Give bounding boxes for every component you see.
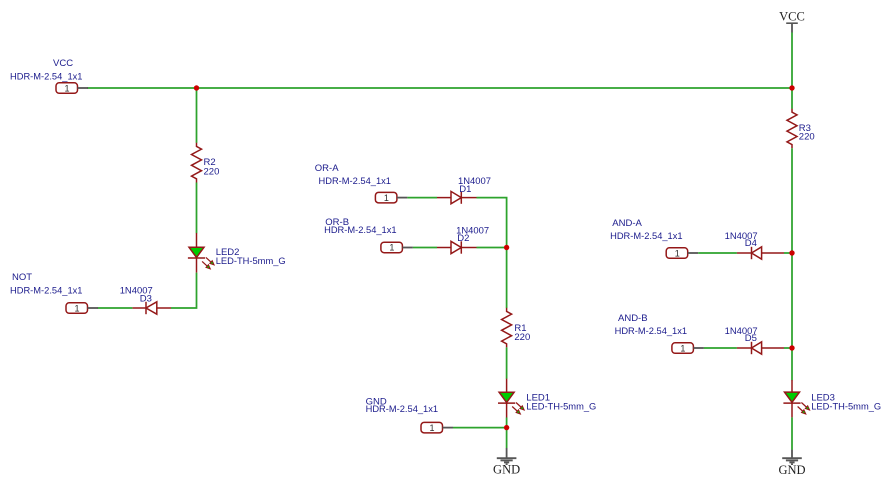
svg-text:D1: D1: [459, 184, 471, 195]
diode D4 1N4007: [737, 247, 784, 259]
svg-text:D5: D5: [745, 333, 757, 344]
junction node VCC-right: [789, 85, 794, 90]
header NOT HDR-M-2.54_1x1: [66, 303, 98, 314]
pin 1 stub: [402, 247, 413, 249]
pin 1 stub: [78, 87, 89, 89]
diode D1 1N4007: [437, 191, 477, 203]
svg-text:GND: GND: [493, 463, 520, 477]
svg-text:1: 1: [675, 248, 680, 258]
svg-text:220: 220: [799, 132, 815, 143]
power flag VCC top right: [779, 9, 805, 32]
pin 1 stub: [443, 427, 454, 429]
svg-text:220: 220: [514, 332, 530, 343]
wire D2 to node: [477, 247, 507, 249]
header AND-A HDR-M-2.54_1x1: [666, 248, 698, 258]
pin 1 stub: [397, 197, 408, 199]
junction node AND-B: [789, 345, 794, 350]
LED3 labels: [811, 392, 881, 412]
wire R2 to LED2: [196, 183, 198, 234]
wire LED3 to GND: [791, 417, 793, 450]
LED3 light arrows: [801, 403, 807, 409]
header P-GND HDR-M-2.54_1x1: [421, 422, 453, 433]
D4 labels: [725, 231, 758, 249]
wire AND-A to D4: [698, 252, 737, 254]
svg-text:AND-A: AND-A: [612, 218, 642, 229]
svg-text:1: 1: [75, 303, 80, 313]
resistor R1: [502, 308, 512, 348]
svg-text:220: 220: [204, 166, 220, 177]
LED LED1: [498, 379, 524, 418]
D2 labels: [456, 225, 489, 244]
R2 value labels: [204, 157, 220, 177]
header AND-A labels: [610, 218, 683, 242]
R3 value labels: [799, 123, 815, 143]
svg-text:1: 1: [384, 193, 389, 203]
header OR-B labels: [324, 217, 397, 236]
header OR-A labels: [315, 163, 391, 187]
svg-text:NOT: NOT: [12, 272, 32, 283]
junction node OR output: [504, 245, 509, 250]
svg-text:HDR-M-2.54_1x1: HDR-M-2.54_1x1: [319, 176, 392, 187]
svg-text:AND-B: AND-B: [618, 313, 648, 324]
svg-text:VCC: VCC: [779, 9, 805, 23]
junction node GND-mid: [504, 425, 509, 430]
junction node VCC-left: [194, 85, 199, 90]
junction node AND-A: [789, 250, 794, 255]
diode D2 1N4007: [437, 241, 477, 253]
svg-text:D2: D2: [457, 233, 469, 244]
svg-text:HDR-M-2.54_1x1: HDR-M-2.54_1x1: [366, 404, 439, 415]
LED1 light arrows: [516, 403, 522, 409]
header AND-B HDR-M-2.54_1x1: [672, 343, 704, 354]
D1 labels: [458, 176, 491, 195]
header P-VCC labels: [10, 58, 83, 83]
resistor R3: [787, 109, 797, 149]
svg-text:HDR-M-2.54_1x1: HDR-M-2.54_1x1: [324, 225, 397, 236]
wire AND-B to D5: [704, 347, 737, 349]
LED LED3: [783, 380, 809, 417]
D3 labels: [120, 286, 153, 305]
header P-GND labels: [366, 396, 439, 415]
svg-text:VCC: VCC: [53, 58, 73, 69]
wire R1 to LED1: [506, 347, 508, 378]
LED LED2: [188, 233, 214, 273]
svg-text:D4: D4: [745, 238, 757, 249]
LED2 labels: [216, 247, 286, 267]
svg-text:1: 1: [680, 343, 685, 353]
wire D1 to node corner: [477, 198, 507, 248]
wire node to R1: [506, 248, 508, 309]
LED1 labels: [526, 392, 596, 412]
wire D4 to node: [784, 252, 792, 254]
svg-text:LED-TH-5mm_G: LED-TH-5mm_G: [216, 256, 286, 267]
resistor R2: [192, 143, 202, 183]
wire VCC rail horizontal: [87, 87, 792, 89]
svg-text:HDR-M-2.54_1x1: HDR-M-2.54_1x1: [10, 286, 83, 297]
svg-text:HDR-M-2.54_1x1: HDR-M-2.54_1x1: [615, 326, 688, 337]
ground GND right: [778, 450, 805, 477]
svg-text:HDR-M-2.54_1x1: HDR-M-2.54_1x1: [10, 72, 83, 83]
svg-text:GND: GND: [778, 463, 805, 477]
wire LED2 down and left to D3: [171, 273, 197, 308]
svg-text:LED-TH-5mm_G: LED-TH-5mm_G: [811, 401, 881, 412]
D5 labels: [725, 326, 758, 344]
wire R3 down to LED3: [791, 148, 793, 380]
svg-text:D3: D3: [140, 293, 152, 304]
svg-text:1: 1: [430, 423, 435, 433]
pin 1 stub: [693, 347, 704, 349]
header OR-A HDR-M-2.54_1x1: [375, 192, 407, 203]
LED2 light arrows: [206, 257, 212, 263]
svg-text:1: 1: [389, 243, 394, 253]
wire LED1 to GND node: [506, 418, 508, 449]
header NOT labels: [10, 272, 83, 297]
header OR-B HDR-M-2.54_1x1: [381, 242, 413, 253]
svg-text:OR-A: OR-A: [315, 163, 339, 174]
wire VCC to R2: [196, 88, 198, 143]
R1 value labels: [514, 323, 530, 343]
pin 1 stub: [88, 307, 99, 309]
svg-text:1: 1: [65, 83, 70, 93]
wire VCC flag down: [791, 33, 793, 109]
header P-VCC HDR-M-2.54_1x1: [56, 83, 88, 94]
diode D5 1N4007: [737, 342, 784, 354]
wire D5 to node: [784, 347, 792, 349]
svg-text:LED-TH-5mm_G: LED-TH-5mm_G: [526, 401, 596, 412]
wire D3 to NOT header: [98, 307, 133, 309]
wire OR-A to D1: [407, 197, 437, 199]
pin 1 stub: [688, 252, 699, 254]
wire OR-B to D2: [413, 247, 437, 249]
diode D3 1N4007: [132, 302, 171, 314]
wire GND header to node: [453, 427, 507, 429]
svg-text:HDR-M-2.54_1x1: HDR-M-2.54_1x1: [610, 231, 683, 242]
header AND-B labels: [615, 313, 688, 337]
ground GND mid: [493, 448, 520, 477]
